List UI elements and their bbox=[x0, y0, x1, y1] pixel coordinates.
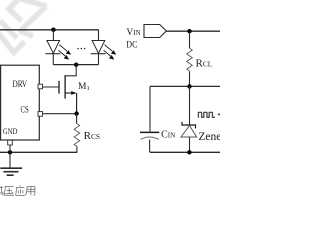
capacitor CIN bbox=[149, 86, 151, 131]
node LED+ junction dot bbox=[51, 28, 55, 32]
node CS junction dot bbox=[74, 111, 78, 115]
caption 低压应用 (vector strokes) bbox=[0, 185, 35, 195]
node bottom rail junction dot bbox=[187, 150, 191, 154]
wire DRV gate lead bbox=[43, 86, 60, 88]
wire CS lead bbox=[43, 113, 77, 115]
pin pad CS bbox=[38, 112, 43, 117]
pin pad GND bbox=[8, 140, 13, 145]
svg-text:DRV: DRV bbox=[13, 79, 28, 89]
transistor M1 bbox=[59, 75, 77, 113]
ground bbox=[0, 168, 22, 175]
svg-text:Zener: Zener bbox=[198, 131, 220, 143]
LED D2 bbox=[91, 41, 106, 65]
resistor RCL bbox=[189, 31, 191, 48]
diode Zener bbox=[189, 86, 191, 124]
wire GND pin to rail bbox=[9, 145, 11, 152]
node top rail junction dot bbox=[187, 84, 191, 88]
node drain junction dot bbox=[74, 62, 78, 66]
wire M1 drain lead bbox=[65, 65, 76, 76]
M1 source arrow bbox=[71, 91, 76, 95]
wire bottom LED rail bbox=[53, 64, 98, 66]
node GND junction dot bbox=[8, 150, 12, 154]
svg-text:RCL: RCL bbox=[196, 57, 213, 69]
wire rail to ground symbol bbox=[9, 152, 11, 167]
node dots ... (more LEDs) bbox=[77, 48, 85, 50]
svg-text:CS: CS bbox=[21, 105, 29, 115]
svg-text:VIN: VIN bbox=[126, 28, 140, 38]
wire LED2 anode lead bbox=[98, 30, 100, 41]
wire VIN rail bbox=[166, 30, 220, 32]
svg-text:DC: DC bbox=[126, 39, 137, 50]
op-amp/controller IC box U1 bbox=[1, 65, 40, 140]
pin pad DRV bbox=[38, 84, 43, 89]
svg-text:M1: M1 bbox=[78, 82, 90, 92]
wire right box bottom rail bbox=[150, 151, 220, 153]
svg-text:RCS: RCS bbox=[84, 130, 100, 142]
wire LED1 anode lead bbox=[52, 30, 54, 41]
wire top LED rail bbox=[0, 29, 99, 31]
PWM waveform icon bbox=[198, 112, 214, 117]
svg-text:GND: GND bbox=[3, 127, 18, 136]
watermark bbox=[0, 0, 47, 53]
svg-text:CIN: CIN bbox=[161, 130, 176, 141]
input tag VIN bbox=[144, 25, 166, 38]
arrow fragment at edge bbox=[218, 113, 220, 115]
wire right box top rail bbox=[150, 85, 220, 87]
wire ground rail bbox=[0, 151, 77, 153]
node VIN junction dot bbox=[187, 29, 191, 33]
resistor RCS bbox=[76, 114, 78, 124]
LED D1 bbox=[46, 41, 61, 65]
